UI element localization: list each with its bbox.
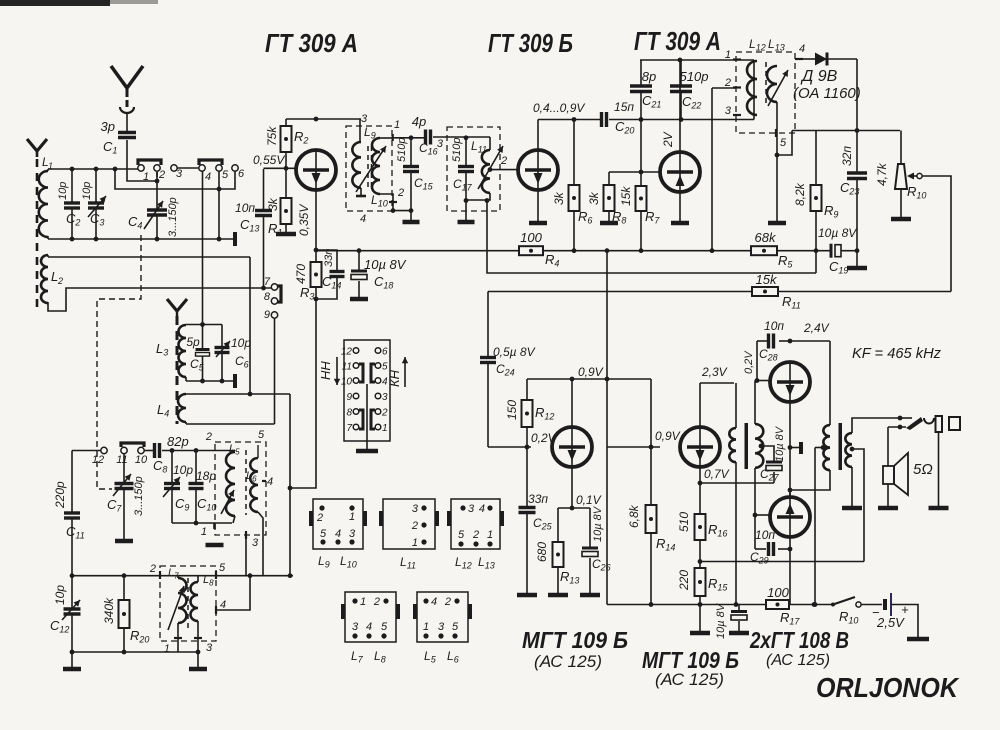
ground under C18 bbox=[350, 297, 368, 302]
label pin2 L10 bbox=[397, 187, 404, 199]
wire Q6 collector bbox=[790, 470, 830, 497]
wire x290 drop bbox=[289, 394, 291, 576]
driver transformer core bbox=[745, 423, 749, 469]
svg-text:ГТ 309 Б: ГТ 309 Б bbox=[488, 28, 573, 58]
capacitor C14 bbox=[316, 249, 345, 299]
svg-text:6: 6 bbox=[382, 347, 388, 358]
capacitor C27 bbox=[760, 462, 782, 483]
contact 5 bbox=[216, 165, 229, 181]
svg-text:3: 3 bbox=[206, 642, 213, 654]
wire x712 drop bbox=[711, 88, 713, 251]
wire pin4 L8 bbox=[216, 576, 250, 614]
wire L2 top run bbox=[48, 255, 250, 257]
wire tap supply bbox=[814, 448, 816, 605]
ground under L7L8 bbox=[189, 652, 207, 669]
wire tank bottom bus bbox=[172, 522, 232, 524]
svg-text:0,1V: 0,1V bbox=[576, 493, 602, 507]
L9 bottom tick bbox=[356, 188, 366, 196]
label 02V bbox=[743, 350, 755, 374]
scan artifact bar top-left bbox=[0, 0, 158, 6]
jack hook bbox=[924, 418, 934, 424]
junction Q5 collector bbox=[788, 339, 793, 344]
svg-text:15k: 15k bbox=[756, 272, 778, 287]
svg-text:15k: 15k bbox=[619, 186, 633, 206]
connector box L9 L10 bbox=[309, 499, 367, 570]
wire Q6 base bbox=[755, 514, 769, 516]
junction x290 y576 bbox=[288, 573, 293, 578]
jack contact upper bbox=[898, 416, 912, 421]
svg-text:5: 5 bbox=[458, 529, 465, 541]
label 24V bbox=[803, 321, 830, 335]
secondary centre tap bbox=[759, 444, 774, 461]
resistor R8 bbox=[587, 172, 626, 226]
capacitor C18 bbox=[351, 251, 407, 297]
wire C13 drop bbox=[263, 169, 265, 210]
inductor L12 bbox=[747, 61, 757, 115]
wire L12 branch bbox=[753, 60, 755, 120]
resistor R3 with C14 bbox=[294, 250, 322, 302]
svg-text:2хГТ 108 В: 2хГТ 108 В bbox=[749, 627, 849, 653]
label L10 bbox=[371, 193, 388, 209]
svg-text:10p: 10p bbox=[81, 182, 93, 200]
wire pin2 branch bbox=[712, 87, 736, 89]
output transformer core bbox=[839, 423, 843, 470]
svg-text:11: 11 bbox=[116, 454, 127, 466]
wire 4p node bbox=[393, 137, 426, 139]
svg-text:0,2V: 0,2V bbox=[743, 350, 755, 374]
contact 11 bbox=[116, 447, 127, 466]
resistor R5 bbox=[751, 230, 793, 270]
wire L6 top tick bbox=[257, 445, 259, 458]
svg-text:8: 8 bbox=[264, 291, 271, 303]
secondary tap out bbox=[850, 447, 864, 562]
ground under R10 bbox=[891, 217, 911, 222]
junction L10 return b bbox=[391, 208, 396, 213]
svg-text:510p: 510p bbox=[680, 69, 709, 84]
ground sec bbox=[842, 506, 862, 511]
ferrite rod L3 L4 bbox=[176, 316, 179, 424]
wire bus through C19 bbox=[777, 250, 857, 252]
svg-text:9: 9 bbox=[346, 392, 352, 403]
svg-text:10µ 8V: 10µ 8V bbox=[715, 602, 727, 639]
pin2 tick bbox=[724, 77, 741, 89]
capacitor C11 bbox=[53, 451, 85, 576]
wire C28 base drop bbox=[756, 341, 758, 381]
dashed box L11 bbox=[447, 127, 500, 211]
inductor L10 bbox=[372, 138, 380, 194]
core dashes L9L10 bbox=[368, 146, 372, 188]
output transformer primary bbox=[823, 425, 830, 470]
label 0,2V q4 bbox=[531, 431, 557, 445]
wire L10 return bbox=[380, 194, 411, 211]
wire Q4 emitter bbox=[571, 467, 573, 508]
ground battery bbox=[907, 637, 929, 642]
junction R7 bottom bbox=[639, 248, 644, 253]
label MGT109B first bbox=[522, 627, 628, 671]
junction bottom bus c bbox=[155, 237, 160, 242]
wire osc bus mid bbox=[144, 450, 154, 452]
wire diode drop bbox=[856, 59, 858, 131]
wire heterodyne rail bbox=[72, 575, 293, 577]
ground under C30 bbox=[729, 631, 749, 636]
capacitor C30 10u8V bbox=[715, 602, 747, 639]
junction L13 foot bbox=[775, 153, 780, 158]
label pin3 L11 bbox=[437, 138, 444, 150]
junction Q4 emitter bbox=[570, 506, 575, 511]
capacitor C13 bbox=[235, 201, 272, 288]
junction x607 y379 bbox=[605, 377, 610, 382]
potentiometer R10 bbox=[875, 162, 926, 200]
ground under C12 bbox=[63, 652, 81, 669]
svg-text:3: 3 bbox=[349, 528, 356, 540]
bridge 2-1 bbox=[371, 410, 375, 429]
svg-text:10µ 8V: 10µ 8V bbox=[774, 425, 786, 462]
label pin3 L9 bbox=[361, 113, 368, 125]
svg-text:2: 2 bbox=[724, 77, 731, 89]
label ORLJONOK bbox=[816, 672, 960, 703]
svg-text:2,5V: 2,5V bbox=[876, 615, 905, 630]
pin3 tick bbox=[725, 105, 741, 117]
svg-text:3: 3 bbox=[252, 537, 259, 549]
junction c5 mid bbox=[217, 187, 222, 192]
wire detector node bbox=[792, 130, 900, 132]
svg-text:4: 4 bbox=[431, 596, 437, 608]
label pin5 L8 bbox=[216, 562, 226, 579]
ground tank bbox=[206, 543, 224, 548]
core dashes L12L13 bbox=[765, 62, 767, 107]
resistor R14 bbox=[627, 447, 675, 605]
junction C15 top bbox=[409, 135, 414, 140]
resistor R15 bbox=[677, 568, 728, 596]
svg-text:3: 3 bbox=[176, 168, 183, 180]
svg-text:10p: 10p bbox=[57, 182, 69, 200]
junction Q7 emitter bbox=[698, 481, 703, 486]
svg-text:3k: 3k bbox=[266, 197, 280, 211]
inductor L13 bbox=[767, 66, 777, 102]
svg-text:3: 3 bbox=[468, 503, 475, 515]
wire speaker ground bbox=[887, 484, 889, 506]
L11 coil top lead bbox=[489, 137, 491, 150]
svg-text:33п: 33п bbox=[528, 492, 548, 506]
capacitor C16 bbox=[412, 114, 438, 157]
wire Q2 emitter bbox=[537, 190, 539, 221]
ground jack bbox=[929, 506, 949, 511]
contact 12 bbox=[92, 447, 107, 466]
core arrow L9L10 bbox=[356, 146, 386, 192]
wire feedback y561 bbox=[700, 561, 864, 563]
transistor Q1 bbox=[296, 150, 336, 190]
junction bottom bus d bbox=[217, 237, 222, 242]
wire L4 top bbox=[186, 393, 290, 395]
svg-text:5Ω: 5Ω bbox=[913, 461, 933, 478]
junction L11 base tap bbox=[488, 167, 493, 172]
capacitor C28 bbox=[757, 319, 790, 363]
wire osc bus right bbox=[162, 450, 235, 452]
label MGT109B second bbox=[642, 647, 739, 689]
emitter tick bbox=[790, 442, 801, 454]
svg-text:100: 100 bbox=[767, 585, 789, 600]
wire L2 bottom elbow bbox=[48, 288, 273, 311]
svg-text:510p: 510p bbox=[451, 138, 463, 162]
wire primary top bbox=[735, 383, 737, 428]
wire L3 top node bbox=[186, 324, 222, 326]
svg-text:3: 3 bbox=[437, 138, 444, 150]
bridge 5-4 bbox=[371, 364, 375, 382]
svg-text:8: 8 bbox=[346, 408, 352, 419]
svg-text:11: 11 bbox=[342, 362, 352, 373]
junction emitter tick bbox=[788, 445, 793, 450]
label pin2 L5 bbox=[205, 431, 212, 443]
wire secondary gnd bbox=[851, 467, 853, 506]
battery 2.5V bbox=[872, 593, 909, 630]
switch bridge 1-2 bbox=[138, 160, 161, 165]
svg-text:5: 5 bbox=[320, 528, 327, 540]
junction C9 top bbox=[170, 448, 175, 453]
wire R2 to base node bbox=[285, 152, 287, 168]
svg-text:2V: 2V bbox=[661, 131, 675, 148]
wire Q7 emitter bbox=[699, 467, 701, 483]
label 0,55V bbox=[253, 153, 285, 167]
svg-text:220p: 220p bbox=[53, 481, 67, 509]
svg-text:1: 1 bbox=[349, 511, 355, 523]
svg-text:1: 1 bbox=[423, 621, 429, 633]
inductor L2 bbox=[41, 255, 63, 303]
capacitor C24 bbox=[480, 292, 536, 448]
contact 7 bbox=[264, 276, 278, 290]
wiper R10 bbox=[907, 173, 917, 180]
capacitor C20 bbox=[602, 100, 635, 136]
junction R17 right bbox=[812, 602, 817, 607]
svg-text:4: 4 bbox=[360, 213, 366, 225]
output transformer secondary bbox=[845, 433, 852, 467]
svg-text:6,8k: 6,8k bbox=[627, 504, 641, 528]
resistor R20 bbox=[102, 576, 149, 645]
wire R10 bottom bbox=[900, 189, 902, 217]
resistor R12 bbox=[505, 379, 554, 447]
connector box L11 bbox=[379, 499, 439, 571]
svg-text:9: 9 bbox=[264, 309, 270, 321]
svg-text:КН: КН bbox=[387, 369, 402, 387]
junction gnd bus a bbox=[70, 650, 75, 655]
svg-text:1: 1 bbox=[394, 119, 400, 131]
svg-text:2: 2 bbox=[205, 431, 212, 443]
wire R7 leads bbox=[640, 172, 642, 251]
junction R15 top bbox=[698, 559, 703, 564]
dashed box L7 L8 bbox=[160, 566, 216, 641]
svg-text:4: 4 bbox=[335, 528, 341, 540]
svg-text:10п: 10п bbox=[755, 528, 775, 542]
junction L10 return bbox=[409, 208, 414, 213]
dashed box L9 L10 bbox=[346, 126, 392, 211]
svg-text:8p: 8p bbox=[642, 69, 656, 84]
resistor R16 bbox=[677, 483, 727, 540]
svg-text:2: 2 bbox=[472, 529, 479, 541]
wire C16 to L11 bbox=[433, 136, 490, 138]
antenna ferrite small bbox=[27, 139, 47, 157]
svg-text:1: 1 bbox=[201, 526, 207, 538]
ground under R15 bbox=[690, 631, 710, 636]
svg-text:7: 7 bbox=[346, 423, 352, 434]
wire Q1 emitter bbox=[315, 190, 317, 250]
svg-text:3k: 3k bbox=[552, 191, 566, 205]
pin5 tick bbox=[776, 129, 787, 149]
coupling hook bbox=[120, 107, 134, 113]
label pin4 box bbox=[360, 213, 366, 225]
wire R8 ground bbox=[608, 211, 610, 221]
resistor R7 bbox=[619, 186, 660, 226]
junction x607 bus bbox=[605, 248, 610, 253]
diode D9V bbox=[803, 53, 857, 66]
resistor R11 bbox=[752, 272, 801, 311]
svg-text:(АС 125): (АС 125) bbox=[655, 670, 724, 689]
junction tap rail bbox=[813, 602, 818, 607]
svg-text:12: 12 bbox=[92, 454, 104, 466]
dashed box L5 L6 bbox=[215, 442, 266, 535]
junction Q4 base node bbox=[525, 445, 530, 450]
wire R17 to switch bbox=[789, 604, 833, 606]
svg-text:1: 1 bbox=[487, 529, 493, 541]
wire Q4 collector bbox=[571, 379, 573, 427]
svg-text:10µ 8V: 10µ 8V bbox=[592, 505, 604, 542]
junction L1 bus b bbox=[94, 167, 99, 172]
resistor R17 bbox=[766, 585, 800, 627]
junction R15 rail bbox=[698, 602, 703, 607]
transistor Q2 bbox=[518, 150, 558, 190]
ground under C25 bbox=[517, 593, 537, 598]
label 09V a bbox=[578, 365, 604, 379]
junction x712 bus bbox=[710, 248, 715, 253]
L10 top wire bbox=[380, 134, 393, 141]
wire Q3 base bbox=[609, 171, 660, 173]
chassis tick bottom bus bbox=[233, 232, 237, 246]
inductor L9 bbox=[352, 125, 375, 188]
label KF 465kHz bbox=[852, 345, 941, 362]
label pin4 L6 bbox=[262, 476, 273, 488]
inductor L8 bbox=[191, 574, 215, 621]
wire R16-R15 bbox=[699, 540, 701, 568]
svg-text:ГТ 309 А: ГТ 309 А bbox=[634, 26, 721, 56]
svg-text:1: 1 bbox=[412, 537, 418, 549]
svg-text:ГТ 309 А: ГТ 309 А bbox=[265, 28, 358, 58]
tank ground tick bbox=[201, 523, 215, 538]
core dashes L7L8 bbox=[187, 578, 189, 632]
wire L5 bottom bbox=[233, 516, 235, 523]
capacitor C25 bbox=[519, 447, 553, 593]
pin4 tick bbox=[795, 43, 805, 59]
wire AGC bus up bbox=[815, 251, 817, 273]
svg-text:Д 9В: Д 9В bbox=[800, 68, 838, 85]
svg-text:4: 4 bbox=[220, 599, 226, 611]
svg-text:10p: 10p bbox=[231, 336, 251, 350]
wire pin5 link bbox=[777, 131, 792, 156]
transistor Q5 bbox=[770, 362, 810, 402]
wire into L9 bbox=[359, 119, 361, 142]
capacitor C19 bbox=[818, 226, 857, 276]
svg-text:2,3V: 2,3V bbox=[701, 365, 728, 379]
inductor L3 bbox=[156, 325, 186, 377]
contact 2 bbox=[154, 165, 165, 181]
junction Q7 base node bbox=[649, 445, 654, 450]
switch block contacts bbox=[341, 347, 388, 435]
label 0.4-0.9V bbox=[533, 101, 585, 115]
capacitor C4 variable bbox=[128, 172, 179, 239]
ground under C15 bbox=[403, 220, 420, 225]
svg-text:10µ 8V: 10µ 8V bbox=[364, 257, 407, 272]
svg-text:2: 2 bbox=[316, 512, 323, 524]
svg-text:10p: 10p bbox=[53, 585, 67, 605]
pin1 tick bbox=[725, 49, 741, 61]
junction C21 bottom bbox=[639, 117, 644, 122]
svg-text:1: 1 bbox=[164, 643, 170, 655]
wire 23 rail bbox=[700, 382, 734, 384]
capacitor C9 trimmer bbox=[163, 451, 193, 524]
junction tank bot b bbox=[220, 379, 225, 384]
ground speaker bbox=[878, 506, 898, 511]
contact 8 bbox=[264, 291, 278, 304]
svg-text:0,4...0,9V: 0,4...0,9V bbox=[533, 101, 585, 115]
svg-text:2: 2 bbox=[381, 408, 388, 419]
capacitor C6 trimmer bbox=[215, 325, 252, 382]
wire Q5 base bbox=[755, 380, 770, 382]
gang link C4 dashed bbox=[97, 235, 141, 489]
svg-text:5: 5 bbox=[222, 169, 229, 181]
label pin2 L7 bbox=[149, 563, 160, 579]
wire R6 leads bbox=[573, 120, 575, 251]
ground under R13 bbox=[548, 593, 568, 598]
svg-text:10п: 10п bbox=[235, 201, 255, 215]
ground under R1 bbox=[276, 224, 296, 234]
driver transformer secondary bbox=[755, 424, 763, 468]
label 10u8V q5 bbox=[774, 425, 786, 462]
wire Q2 collector bbox=[537, 120, 539, 151]
svg-text:10: 10 bbox=[135, 454, 148, 466]
wire R9 to node bbox=[815, 211, 817, 251]
svg-text:0,35V: 0,35V bbox=[297, 204, 311, 236]
wire contact4 drop bbox=[202, 171, 204, 325]
capacitor C5 bbox=[186, 325, 209, 382]
svg-text:4: 4 bbox=[267, 476, 273, 488]
wire C23 ground bbox=[856, 251, 858, 266]
svg-text:68k: 68k bbox=[755, 230, 777, 245]
junction L3 top bbox=[200, 322, 205, 327]
junction C29 emitter bbox=[788, 547, 793, 552]
wire L8 top bbox=[197, 576, 199, 582]
labels L12 L13 top bbox=[749, 37, 785, 53]
svg-text:3: 3 bbox=[725, 105, 732, 117]
wire jack ground bbox=[938, 432, 940, 506]
ground under Q3 bbox=[671, 221, 689, 226]
junction top bus Q3 bbox=[678, 58, 683, 63]
ground under C23 bbox=[847, 266, 867, 271]
svg-text:3: 3 bbox=[352, 621, 359, 633]
junction L1 bus c bbox=[113, 167, 118, 172]
capacitor C8 bbox=[153, 434, 189, 475]
svg-text:2: 2 bbox=[57, 276, 63, 286]
svg-text:10p: 10p bbox=[173, 463, 193, 477]
svg-text:470: 470 bbox=[294, 264, 308, 284]
svg-text:3: 3 bbox=[438, 621, 445, 633]
ground under Q2 bbox=[529, 221, 547, 226]
svg-text:32п: 32п bbox=[840, 146, 854, 166]
capacitor C10 bbox=[189, 451, 217, 524]
capacitor C26 bbox=[582, 505, 611, 593]
capacitor C22 bbox=[670, 60, 708, 120]
svg-text:4p: 4p bbox=[412, 114, 426, 129]
junction C1-branch bbox=[155, 179, 160, 184]
jack contact lower bbox=[888, 425, 906, 430]
capacitor C7 variable bbox=[107, 454, 145, 539]
wire speaker feed bbox=[887, 427, 889, 466]
